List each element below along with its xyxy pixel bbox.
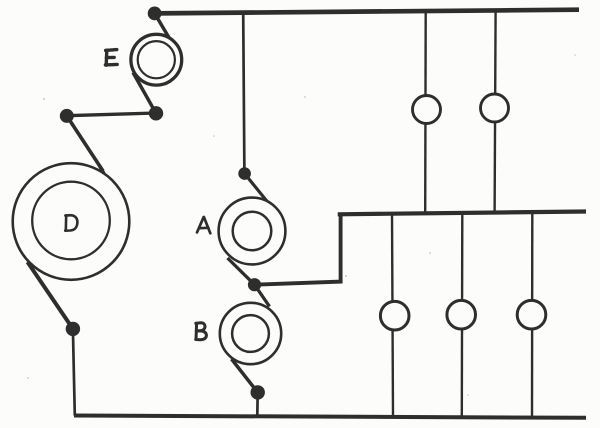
wire step from mid node up to middle bus — [255, 213, 341, 285]
wire lamp branch bottom 3 — [531, 213, 534, 417]
wire overshoot of node-to-D diagonal across the outline — [99, 165, 104, 174]
wire bottom bus — [74, 416, 586, 418]
wire lamp branch bottom 1 — [392, 213, 393, 416]
wire diagonal mid node to meter B — [255, 285, 270, 307]
wire diagonal dynamo D to lower node — [28, 262, 73, 329]
lamp L3 — [380, 301, 409, 330]
lamp L2 — [481, 94, 509, 122]
scan specks (noise) — [27, 54, 576, 396]
wire diagonal node to meter A — [245, 174, 268, 203]
wire top bus — [155, 10, 580, 14]
node junction at top of E — [148, 6, 162, 20]
node junction left above D — [60, 109, 74, 123]
lamp L1 — [413, 96, 441, 124]
label D — [65, 215, 77, 231]
wire from node below B down to bottom bus — [256, 392, 259, 416]
meter E — [131, 34, 182, 85]
wire diagonal meter E to node below — [133, 73, 156, 114]
wire diagonal top node to meter E — [155, 13, 170, 38]
label B — [196, 323, 207, 340]
node junction below B — [251, 385, 265, 399]
node junction below E — [149, 106, 163, 120]
wire diagonal meter B to bottom node — [232, 359, 258, 392]
wire lamp branch bottom 2 — [461, 213, 464, 417]
wire horizontal between the two left nodes — [67, 113, 156, 116]
node junction below D — [66, 322, 80, 336]
wire diagonal node to dynamo D — [67, 116, 103, 171]
label E — [105, 50, 117, 66]
meter A — [219, 198, 286, 265]
label A — [197, 217, 210, 233]
node junction above A — [238, 167, 251, 180]
dynamo D — [13, 163, 130, 280]
wire middle bus — [338, 212, 586, 215]
wire from node below D down to bottom bus — [73, 329, 75, 416]
wire vertical branch from top bus to meter A node — [243, 12, 244, 173]
wire lamp branch top left — [424, 12, 427, 214]
lamp L4 — [447, 300, 476, 329]
node junction between A and B — [248, 278, 261, 291]
lamp L5 — [517, 300, 546, 329]
wire lamp branch top right — [495, 11, 496, 214]
meter B — [220, 303, 281, 364]
wire diagonal meter A to mid node — [228, 258, 255, 285]
